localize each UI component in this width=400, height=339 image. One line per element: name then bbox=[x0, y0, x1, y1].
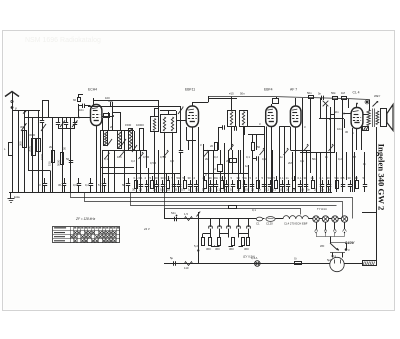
svg-text:60: 60 bbox=[73, 98, 77, 102]
wire return 1 bbox=[71, 193, 353, 219]
svg-text:0,1: 0,1 bbox=[280, 176, 284, 180]
svg-text:0,5M: 0,5M bbox=[143, 155, 150, 159]
resistor R17 bbox=[229, 238, 235, 252]
wire bbox=[62, 118, 64, 193]
wire bbox=[198, 127, 200, 192]
svg-text:0,2: 0,2 bbox=[338, 157, 342, 161]
wire bbox=[103, 173, 180, 175]
selector tap 4 bbox=[343, 222, 347, 233]
wire bbox=[243, 127, 245, 193]
svg-text:ZF = 128 kHz: ZF = 128 kHz bbox=[75, 217, 96, 221]
capacitor row2 bbox=[145, 176, 150, 192]
capacitor row23 bbox=[268, 176, 273, 192]
svg-text:TY Ω14: TY Ω14 bbox=[317, 207, 327, 211]
IF transformer T2 box B bbox=[240, 111, 248, 127]
svg-text:50k: 50k bbox=[331, 91, 336, 95]
wire tube3 cathode bbox=[271, 127, 273, 193]
wire bbox=[100, 167, 134, 169]
svg-text:0,5M: 0,5M bbox=[150, 161, 157, 165]
speaker bbox=[381, 105, 394, 131]
svg-text:25: 25 bbox=[167, 188, 171, 192]
ground bus bbox=[9, 192, 332, 194]
wire bbox=[186, 127, 188, 140]
wire tube3 top box bbox=[272, 97, 279, 107]
wire tube1 top bbox=[94, 96, 159, 105]
svg-text:1n: 1n bbox=[325, 155, 329, 159]
tube heater 1 bbox=[209, 219, 213, 234]
svg-text:5n: 5n bbox=[293, 188, 297, 192]
capacitor row22 bbox=[262, 176, 267, 192]
wire bbox=[330, 243, 347, 250]
wire bbox=[18, 110, 20, 192]
capacitor row14 bbox=[214, 176, 219, 192]
svg-text:54n: 54n bbox=[171, 211, 176, 215]
wire mains left bbox=[164, 263, 330, 265]
node grid1 bbox=[78, 117, 80, 119]
wire bbox=[376, 263, 378, 266]
svg-text:360: 360 bbox=[215, 247, 220, 251]
voltage selector lamp 2 bbox=[322, 216, 332, 222]
svg-text:5μ: 5μ bbox=[170, 256, 174, 260]
resistor row12 bbox=[203, 176, 207, 189]
svg-text:1n: 1n bbox=[280, 155, 284, 159]
label bbox=[374, 94, 381, 98]
wire bbox=[232, 150, 234, 174]
svg-text:10: 10 bbox=[230, 188, 234, 192]
wire antenna down-lead bbox=[13, 107, 27, 192]
wire bbox=[220, 150, 222, 192]
wire bbox=[231, 97, 233, 111]
wire heater feed bbox=[164, 209, 208, 220]
label EBF4 bbox=[264, 88, 273, 92]
svg-text:0,1: 0,1 bbox=[265, 188, 269, 192]
svg-text:CL 4: CL 4 bbox=[353, 91, 360, 95]
label C11 bbox=[327, 254, 336, 262]
svg-text:EBF4: EBF4 bbox=[264, 88, 273, 92]
label osc bbox=[110, 123, 144, 129]
svg-text:10: 10 bbox=[213, 167, 217, 171]
wire bbox=[166, 174, 168, 193]
svg-text:0,2: 0,2 bbox=[85, 183, 89, 187]
wire bbox=[208, 96, 210, 102]
svg-text:0,2: 0,2 bbox=[131, 159, 135, 163]
wire bbox=[259, 122, 267, 192]
resistor R14 bbox=[202, 238, 205, 246]
wire return 2 bbox=[85, 193, 343, 217]
wire return 4 bbox=[165, 193, 301, 215]
wire bbox=[24, 110, 26, 192]
heater chain jumpers bbox=[203, 234, 249, 247]
label 240V bbox=[344, 240, 355, 245]
wire bbox=[361, 126, 363, 150]
wire bbox=[172, 133, 174, 192]
capacitor C5 bbox=[64, 118, 68, 129]
wire bbox=[319, 118, 344, 120]
wire tube2 grid bbox=[177, 105, 187, 121]
capacitor C19 bbox=[171, 211, 177, 221]
voltage selector lamp 1 bbox=[313, 216, 323, 222]
resistor R13 bbox=[184, 212, 193, 221]
label Ingelen 340GW2 bbox=[377, 144, 387, 211]
capacitor C7 bbox=[72, 118, 78, 129]
svg-text:5n: 5n bbox=[318, 92, 322, 96]
trimmer C14 bbox=[178, 107, 183, 114]
wire bbox=[344, 119, 346, 128]
capacitor row16 bbox=[225, 176, 230, 192]
svg-text:1n: 1n bbox=[286, 176, 290, 180]
resistor R8 bbox=[307, 91, 314, 99]
wire bbox=[310, 98, 312, 150]
wire bbox=[304, 125, 307, 192]
tube heater 2 bbox=[218, 219, 222, 234]
svg-text:50: 50 bbox=[257, 145, 261, 149]
wire bbox=[316, 152, 318, 192]
IF transformer T1 box A bbox=[151, 117, 159, 132]
resistor row24 bbox=[274, 176, 278, 189]
resistor R9 bbox=[331, 110, 340, 119]
wire bbox=[376, 127, 378, 192]
wire bbox=[326, 106, 328, 193]
capacitor row26 bbox=[286, 176, 291, 192]
capacitor C15 bbox=[218, 125, 225, 150]
node bbox=[365, 100, 369, 104]
svg-text:1n: 1n bbox=[223, 188, 227, 192]
svg-text:30: 30 bbox=[195, 188, 199, 192]
svg-text:25: 25 bbox=[314, 188, 318, 192]
svg-text:0,2: 0,2 bbox=[170, 159, 174, 163]
capacitor C17 bbox=[253, 156, 259, 192]
wire bbox=[213, 150, 215, 192]
pilot lamp bbox=[251, 256, 260, 266]
svg-text:20: 20 bbox=[110, 125, 114, 129]
capacitor (0,01) bbox=[73, 178, 81, 192]
svg-text:360: 360 bbox=[229, 247, 234, 251]
resistor row27 bbox=[292, 176, 296, 189]
capacitor row34 bbox=[341, 176, 346, 192]
wire tube5 cathode bbox=[352, 128, 354, 192]
svg-text:2M: 2M bbox=[205, 157, 210, 161]
wire bbox=[158, 150, 160, 192]
table wave-band chart bbox=[53, 227, 121, 244]
svg-text:30: 30 bbox=[237, 176, 241, 180]
svg-text:25: 25 bbox=[237, 188, 241, 192]
capacitor row1 bbox=[139, 176, 144, 192]
wire bbox=[344, 263, 362, 265]
svg-text:25: 25 bbox=[251, 188, 255, 192]
cathode resistor R12 bbox=[363, 127, 369, 131]
wire bbox=[240, 150, 242, 174]
svg-text:20: 20 bbox=[210, 144, 214, 148]
svg-text:30: 30 bbox=[155, 176, 159, 180]
wire bbox=[62, 128, 64, 192]
svg-text:50: 50 bbox=[66, 157, 70, 161]
tube heater 5 bbox=[247, 219, 251, 234]
IF transformer T2 box A bbox=[228, 111, 236, 127]
labels scattered values bbox=[104, 155, 367, 166]
node bbox=[345, 248, 350, 252]
svg-text:110: 110 bbox=[184, 266, 189, 270]
wire bbox=[231, 127, 233, 151]
coil L5 osc bbox=[104, 131, 108, 146]
svg-text:1M: 1M bbox=[341, 91, 346, 95]
svg-text:2n: 2n bbox=[153, 188, 157, 192]
wire bbox=[174, 174, 176, 193]
svg-text:300: 300 bbox=[19, 141, 23, 146]
wire bbox=[136, 150, 138, 192]
trimmer arrows bbox=[105, 144, 334, 159]
tube U2 EBF11 bbox=[186, 106, 198, 127]
capacitor C18 bbox=[318, 92, 324, 101]
IF transformer T1 box B bbox=[161, 115, 177, 133]
svg-text:50n: 50n bbox=[268, 176, 273, 180]
wire bbox=[108, 112, 110, 131]
wire bbox=[364, 152, 366, 180]
tube heater 3 bbox=[227, 219, 231, 234]
svg-text:0,5: 0,5 bbox=[341, 176, 345, 180]
wire bbox=[203, 150, 216, 152]
capacitor row37 bbox=[363, 176, 368, 192]
label 24V bbox=[143, 227, 151, 231]
svg-text:30: 30 bbox=[132, 188, 136, 192]
wire bbox=[112, 104, 114, 131]
wire bbox=[70, 118, 72, 193]
tube U5 CL4 bbox=[351, 108, 363, 129]
capacitor row31 bbox=[320, 176, 325, 192]
wire bbox=[200, 143, 204, 192]
wire bbox=[309, 218, 313, 220]
label rail bbox=[208, 92, 245, 99]
wire bbox=[228, 150, 230, 192]
wire bbox=[28, 110, 30, 171]
wire bbox=[362, 212, 377, 214]
wire bbox=[245, 164, 249, 192]
svg-text:1n: 1n bbox=[245, 164, 249, 168]
svg-text:30: 30 bbox=[304, 176, 308, 180]
wire bbox=[102, 118, 104, 131]
svg-text:10: 10 bbox=[146, 188, 150, 192]
svg-text:360: 360 bbox=[206, 247, 211, 251]
svg-text:0,4 A: 0,4 A bbox=[251, 256, 258, 260]
resistor R3 bbox=[73, 98, 81, 103]
svg-text:WF: WF bbox=[320, 244, 325, 248]
svg-text:EBF11: EBF11 bbox=[185, 88, 195, 92]
selector tap 1 bbox=[315, 222, 318, 233]
coil L2 bbox=[20, 125, 27, 148]
svg-text:0,5: 0,5 bbox=[181, 188, 185, 192]
capacitor C4 bbox=[56, 118, 60, 129]
svg-text:30: 30 bbox=[355, 176, 359, 180]
wire tube1 cathode bbox=[96, 126, 98, 193]
wire bbox=[160, 111, 177, 116]
wire bbox=[50, 171, 52, 193]
svg-text:30: 30 bbox=[348, 176, 352, 180]
wire bbox=[336, 152, 338, 192]
resistor R10 bbox=[331, 91, 338, 100]
antenna coil L1 bbox=[4, 143, 13, 156]
capacitor row11 bbox=[194, 176, 199, 192]
svg-text:WEY: WEY bbox=[374, 94, 381, 98]
svg-text:5n: 5n bbox=[202, 188, 206, 192]
svg-text:0,1: 0,1 bbox=[139, 176, 143, 180]
svg-text:Erde: Erde bbox=[14, 195, 20, 199]
labels shunt row values bbox=[132, 188, 332, 192]
wire bbox=[158, 100, 160, 117]
trimmer C3 bbox=[41, 124, 46, 131]
wire bbox=[279, 126, 290, 128]
svg-text:2M: 2M bbox=[49, 145, 54, 149]
wire bbox=[264, 126, 266, 192]
wire bbox=[148, 168, 150, 192]
wire bbox=[188, 140, 190, 150]
resistor R5 bbox=[252, 143, 261, 151]
label fuse chain bbox=[243, 255, 255, 259]
svg-text:AF 7: AF 7 bbox=[290, 88, 297, 92]
capacitor row13 bbox=[209, 176, 214, 192]
wire bbox=[252, 135, 254, 192]
ground symbol bbox=[8, 192, 21, 203]
svg-text:30: 30 bbox=[209, 188, 213, 192]
wire bbox=[354, 152, 356, 192]
svg-text:CL4 270 ECH EBF: CL4 270 ECH EBF bbox=[284, 222, 308, 226]
wire bbox=[320, 98, 322, 119]
svg-text:5,2: 5,2 bbox=[194, 244, 198, 248]
wire bbox=[140, 150, 142, 192]
wire bbox=[329, 107, 331, 120]
resistor R4 bbox=[210, 143, 218, 151]
label ZF bbox=[75, 217, 96, 221]
wire bbox=[244, 127, 246, 136]
capacitor (5) bbox=[98, 178, 106, 192]
resistor WW bbox=[363, 261, 377, 266]
wire bbox=[78, 108, 80, 118]
mains plug bbox=[330, 253, 345, 272]
wire bbox=[211, 234, 249, 238]
capacitor C8 bbox=[66, 157, 73, 163]
svg-text:0,1: 0,1 bbox=[262, 157, 266, 161]
wire bbox=[38, 110, 40, 192]
tube U4 AF7 bbox=[290, 106, 301, 127]
wire bbox=[124, 131, 126, 192]
wire bbox=[369, 100, 371, 111]
label AF7 bbox=[290, 88, 297, 92]
capacitor (5k) bbox=[122, 178, 130, 192]
capacitor C10 bbox=[108, 99, 113, 106]
capacitor C9 bbox=[79, 104, 91, 112]
resistor R18 bbox=[242, 238, 245, 246]
wire bbox=[186, 140, 196, 142]
svg-text:50n: 50n bbox=[335, 176, 340, 180]
svg-text:24 V: 24 V bbox=[143, 227, 151, 231]
svg-text:1n: 1n bbox=[363, 162, 367, 166]
svg-text:1,5: 1,5 bbox=[184, 212, 188, 216]
svg-text:360: 360 bbox=[244, 247, 249, 251]
wire bbox=[348, 99, 350, 109]
wire bbox=[248, 126, 265, 128]
wire bbox=[290, 127, 292, 150]
svg-text:0,5: 0,5 bbox=[300, 188, 304, 192]
wire bbox=[52, 118, 54, 193]
wire tube4 top bbox=[295, 98, 297, 106]
resistor row3 bbox=[150, 176, 154, 189]
capacitor (30) bbox=[58, 178, 66, 192]
trimmer C2 bbox=[21, 123, 27, 131]
wire bbox=[302, 98, 304, 192]
capacitor row10 bbox=[188, 176, 193, 192]
svg-text:1500: 1500 bbox=[40, 153, 44, 160]
wire bbox=[203, 173, 248, 177]
ballast bbox=[266, 217, 283, 226]
coil L6 osc bbox=[118, 131, 122, 149]
capacitor (3) bbox=[39, 178, 47, 192]
svg-text:0,1: 0,1 bbox=[298, 176, 302, 180]
wire bbox=[100, 131, 102, 192]
wire bbox=[100, 168, 102, 193]
resistor row21 bbox=[256, 176, 260, 189]
svg-text:0,1: 0,1 bbox=[300, 159, 304, 163]
wire bbox=[300, 152, 335, 154]
wire bbox=[108, 150, 110, 192]
wire bbox=[79, 94, 84, 98]
wire bbox=[113, 112, 121, 131]
tube U3 EBF4 bbox=[266, 107, 277, 127]
svg-text:3000: 3000 bbox=[29, 133, 36, 137]
wire switch drop bbox=[194, 212, 200, 264]
label EBF11 bbox=[185, 88, 195, 92]
crossing wires X bbox=[323, 101, 329, 107]
wire bbox=[24, 117, 91, 119]
capacitor row32 bbox=[327, 176, 332, 192]
wire tube1 plate bbox=[102, 114, 114, 118]
wire bbox=[88, 104, 181, 120]
coil L3 bbox=[29, 133, 36, 156]
wire bbox=[12, 110, 40, 112]
fuse F2 bbox=[294, 257, 302, 265]
svg-text:0,5: 0,5 bbox=[160, 188, 164, 192]
svg-text:30k: 30k bbox=[108, 99, 113, 103]
trimmer C11 bbox=[107, 139, 126, 146]
wire bbox=[114, 150, 116, 192]
wire bbox=[352, 129, 357, 151]
fuse F1 bbox=[256, 217, 265, 225]
svg-text:10n: 10n bbox=[79, 108, 84, 112]
selector bracket bbox=[316, 233, 345, 243]
svg-text:30: 30 bbox=[345, 130, 349, 134]
svg-text:5n: 5n bbox=[307, 188, 311, 192]
capacitor row25 bbox=[280, 176, 285, 192]
wire bbox=[320, 152, 322, 192]
svg-text:Ingelen 340 GW 2: Ingelen 340 GW 2 bbox=[377, 144, 387, 211]
capacitor row4 bbox=[155, 176, 160, 192]
resistor row6 bbox=[166, 176, 170, 189]
wire bbox=[290, 150, 311, 152]
wire bbox=[154, 132, 156, 192]
capacitor (0,2) bbox=[85, 178, 93, 192]
svg-text:30: 30 bbox=[209, 176, 213, 180]
svg-text:0,1: 0,1 bbox=[216, 188, 220, 192]
svg-text:25: 25 bbox=[139, 188, 143, 192]
capacitor row8 bbox=[177, 176, 182, 192]
wire bbox=[310, 150, 312, 173]
capacitor row20 bbox=[250, 176, 255, 192]
wire top rail bbox=[209, 97, 370, 100]
capacitor C20 bbox=[170, 256, 176, 266]
resistor R11 bbox=[341, 91, 347, 100]
resistor R20 bbox=[184, 262, 193, 271]
labels left section values bbox=[19, 141, 67, 166]
resistor row9 bbox=[183, 176, 187, 189]
svg-text:50n: 50n bbox=[243, 176, 248, 180]
capacitor C16 bbox=[235, 126, 237, 130]
